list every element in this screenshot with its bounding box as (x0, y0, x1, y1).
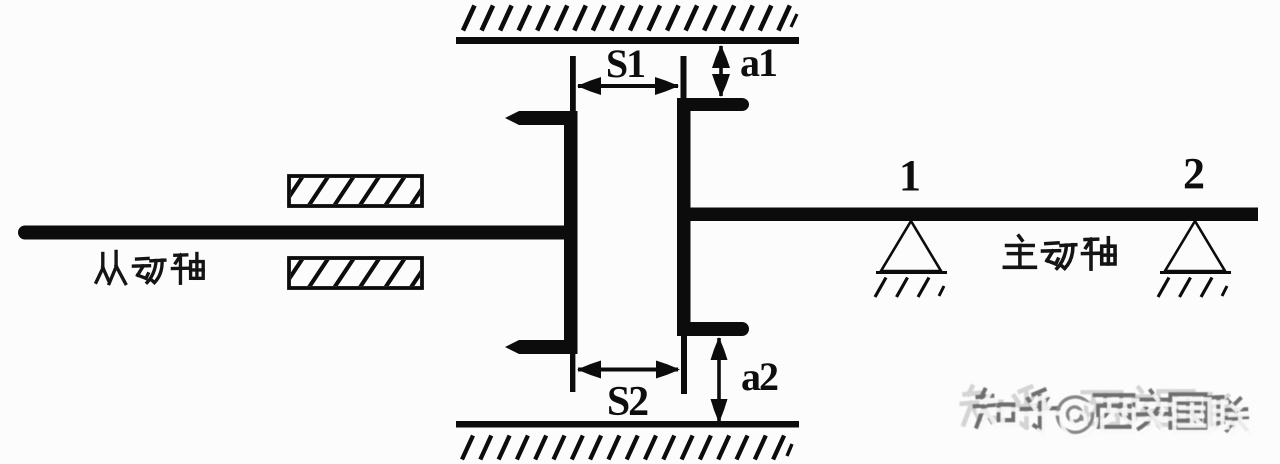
bearing block bottom (283, 258, 456, 288)
label S1 (606, 41, 644, 86)
svg-text:1: 1 (899, 151, 921, 200)
top wall line (456, 37, 799, 44)
coupling left flange body (564, 111, 578, 354)
driving shaft (right) (690, 208, 1258, 222)
support 2 triangle (1160, 221, 1231, 273)
top wall hatching (463, 6, 797, 31)
left flange top extension line (570, 56, 576, 113)
label S2 (607, 379, 648, 425)
label 1 (899, 151, 921, 200)
label a1 (740, 40, 776, 85)
svg-text:S2: S2 (607, 379, 648, 425)
coupling left flange bottom hub (505, 340, 578, 354)
right flange bottom extension line (681, 336, 687, 394)
dimension S1 arrow (577, 77, 679, 95)
coupling right flange top hub (677, 98, 749, 111)
svg-text:S1: S1 (606, 41, 644, 86)
driven shaft (left) (18, 226, 570, 240)
label 2 (1183, 149, 1205, 198)
bearing block top (283, 176, 456, 206)
svg-text:a2: a2 (741, 354, 778, 399)
coupling right flange body (677, 98, 691, 336)
watermark 知乎@西安国联 (962, 387, 1251, 437)
label a2 (741, 354, 778, 399)
bottom wall line (456, 421, 799, 428)
support 1 ground hatching (875, 278, 944, 298)
left flange bottom extension line (570, 353, 575, 392)
bottom wall hatching (462, 436, 792, 460)
right flange top extension line (681, 56, 687, 98)
svg-text:a1: a1 (740, 40, 776, 85)
svg-text:2: 2 (1183, 149, 1205, 198)
coupling left flange top hub (505, 111, 578, 125)
dimension S2 arrow (577, 361, 680, 379)
dimension a1 arrow (712, 45, 730, 97)
support 2 ground hatching (1158, 278, 1227, 298)
label 主动轴 (driving shaft) (1004, 236, 1115, 269)
support 1 triangle (876, 221, 947, 273)
label 从动轴 (driven shaft) (96, 251, 203, 283)
dimension a2 arrow (711, 337, 728, 423)
coupling right flange bottom hub (677, 322, 749, 336)
